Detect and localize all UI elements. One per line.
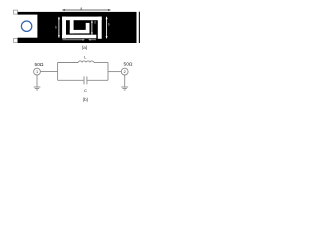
wire port1 down to ground xyxy=(36,75,38,87)
bottom branch wire left xyxy=(58,79,84,81)
svg-text:(b): (b) xyxy=(83,97,89,102)
inductor L xyxy=(78,61,94,63)
figure frame line (right) xyxy=(139,12,140,43)
spiral slot top arm xyxy=(62,17,102,21)
wire port2 down to ground xyxy=(124,75,126,87)
port window (white substrate area) xyxy=(14,15,37,38)
svg-text:b: b xyxy=(55,25,57,29)
spiral slot right arm xyxy=(98,17,102,39)
ground G1 xyxy=(34,86,41,88)
port probe P1 (blue circle) xyxy=(21,21,31,31)
spiral slot bottom arm xyxy=(62,35,96,39)
svg-text:a: a xyxy=(80,6,82,10)
spiral slot inner vertical 2 xyxy=(86,23,90,30)
circuit (b) xyxy=(34,61,129,90)
port 1 circle xyxy=(34,68,41,75)
svg-text:2: 2 xyxy=(124,70,126,74)
svg-text:d: d xyxy=(94,20,96,24)
svg-text:C: C xyxy=(84,88,87,93)
svg-text:L: L xyxy=(84,54,87,59)
dimension d arrow xyxy=(91,20,93,35)
top branch wire right xyxy=(94,62,108,64)
dimension w marks xyxy=(63,39,97,41)
bottom branch wire right xyxy=(87,79,108,81)
ground G2 xyxy=(121,86,128,88)
svg-text:50Ω: 50Ω xyxy=(35,62,44,68)
port 2 circle xyxy=(121,68,128,75)
spiral slot inner vertical 1 xyxy=(70,20,74,33)
capacitor C plates xyxy=(83,76,85,84)
SMA pad bottom-left xyxy=(14,39,18,43)
wire port1 to node A xyxy=(40,71,57,73)
svg-text:1: 1 xyxy=(36,70,38,74)
dimension c arrow (right) xyxy=(106,16,108,38)
dimension b arrow (left) xyxy=(58,17,60,38)
spiral slot left arm xyxy=(62,17,66,39)
resonator left side wire xyxy=(57,63,59,81)
svg-text:50Ω: 50Ω xyxy=(124,62,133,68)
microstrip board U1 (black ground plane) xyxy=(18,12,137,43)
svg-text:(a): (a) xyxy=(82,45,88,50)
spiral slot middle arm xyxy=(70,30,90,34)
wire node B to port 2 xyxy=(108,71,121,73)
dimension a arrow xyxy=(62,9,111,11)
SMA pad top-left xyxy=(14,10,18,14)
resonator right side wire xyxy=(107,63,109,81)
svg-text:b: b xyxy=(108,23,110,27)
top branch wire left xyxy=(58,62,79,64)
